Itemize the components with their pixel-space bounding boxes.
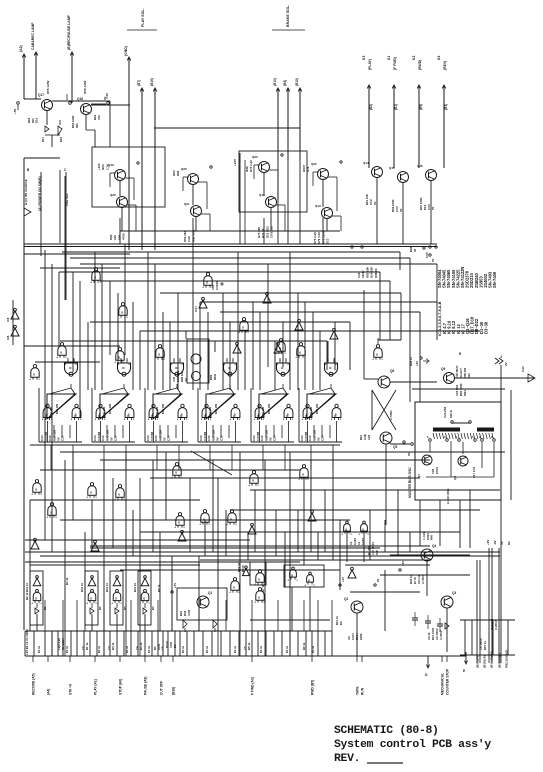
svg-text:IC: IC [286, 414, 289, 418]
svg-text:R3 1k: R3 1k [111, 642, 115, 650]
svg-text:RWD (B5): RWD (B5) [311, 680, 315, 695]
svg-text:Q15: Q15 [389, 166, 395, 170]
svg-text:R4 1k: R4 1k [65, 577, 69, 585]
svg-text:+5V: +5V [415, 361, 419, 366]
svg-text:R86 180: R86 180 [55, 403, 59, 414]
svg-text:B: B [118, 494, 120, 497]
svg-text:R73 2.2K: R73 2.2K [249, 159, 253, 172]
svg-text:Q13: Q13 [315, 204, 321, 208]
svg-text:C20 5DAY: C20 5DAY [455, 365, 459, 378]
svg-text:(B3): (B3) [444, 104, 448, 110]
svg-text:C20: C20 [167, 435, 171, 441]
svg-text:B: B [299, 352, 301, 355]
svg-text:C17 0.01: C17 0.01 [472, 466, 476, 478]
svg-text:B: B [308, 580, 310, 583]
svg-text:0V: 0V [373, 201, 377, 205]
svg-text:R58 1/2W: R58 1/2W [83, 80, 87, 94]
svg-text:Q14: Q14 [363, 161, 369, 165]
svg-text:R31 1k: R31 1k [80, 583, 84, 592]
svg-text:(B9): (B9) [419, 104, 423, 110]
svg-text:IC: IC [69, 366, 72, 370]
svg-text:100/4: 100/4 [426, 533, 430, 540]
svg-text:(B20)(+9): (B20)(+9) [476, 655, 480, 668]
svg-text:Q4: Q4 [432, 544, 436, 548]
svg-text:(REV): (REV) [443, 61, 447, 70]
svg-text:0.2V: 0.2V [521, 366, 525, 372]
svg-text:SN-7400: SN-7400 [492, 271, 497, 288]
svg-text:K3: K3 [362, 56, 366, 60]
svg-text:220K: 220K [359, 633, 363, 640]
svg-text:R9 1k: R9 1k [302, 642, 306, 650]
svg-text:B.(A) ITR CHARGE: B.(A) ITR CHARGE [24, 179, 28, 205]
svg-text:IC8: IC8 [6, 335, 10, 340]
svg-text:K1: K1 [387, 56, 391, 60]
svg-text:0V: 0V [399, 208, 403, 212]
svg-text:R1 1k: R1 1k [205, 645, 209, 653]
svg-text:REV.: REV. [334, 753, 360, 765]
svg-text:C6: C6 [161, 646, 165, 650]
svg-text:PAUSE (A8): PAUSE (A8) [144, 677, 148, 695]
svg-text:C20: C20 [61, 435, 65, 441]
svg-text:CAB&REC LAMP: CAB&REC LAMP [31, 22, 35, 50]
svg-text:MECHANICAL: MECHANICAL [441, 673, 445, 695]
svg-text:2-C19 100/4: 2-C19 100/4 [446, 488, 450, 504]
svg-text:B: B [143, 598, 145, 601]
svg-text:R1 1k: R1 1k [259, 645, 263, 653]
svg-text:IC: IC [257, 414, 260, 418]
svg-text:706: 706 [97, 115, 101, 120]
svg-text:R62: R62 [176, 170, 180, 176]
svg-text:B: B [158, 354, 160, 357]
svg-text:B: B [362, 529, 364, 532]
svg-text:C20: C20 [321, 435, 325, 441]
svg-text:(B10): (B10) [273, 78, 277, 86]
svg-text:R1 1k: R1 1k [181, 645, 185, 653]
svg-text:B: B [178, 522, 180, 525]
svg-text:B: B [291, 575, 293, 578]
svg-text:R86 180: R86 180 [214, 403, 218, 414]
svg-text:B: B [258, 579, 260, 582]
svg-text:100/4: 100/4 [435, 467, 439, 474]
svg-text:(GND): (GND) [124, 46, 128, 56]
svg-text:+5V: +5V [13, 109, 17, 114]
svg-text:4700: 4700 [187, 609, 191, 616]
svg-text:B: B [60, 352, 62, 355]
svg-text:IN34: IN34 [463, 390, 467, 396]
svg-text:PLAY (A1): PLAY (A1) [94, 679, 98, 695]
svg-text:R86 1K: R86 1K [374, 267, 378, 278]
svg-text:2V: 2V [504, 362, 508, 366]
svg-text:0V: 0V [431, 258, 435, 262]
svg-text:D4 OUT: D4 OUT [459, 368, 463, 378]
svg-text:(B2): (B2) [369, 104, 373, 110]
svg-text:R86 180: R86 180 [315, 403, 319, 414]
svg-text:0V: 0V [407, 452, 411, 456]
svg-text:D8 I8: D8 I8 [241, 565, 245, 572]
svg-text:F FWD (A3): F FWD (A3) [251, 677, 255, 695]
svg-text:R55 1/2W: R55 1/2W [46, 80, 50, 94]
svg-text:(F FWD): (F FWD) [393, 57, 397, 70]
svg-text:RECORD (A5): RECORD (A5) [32, 673, 36, 695]
svg-text:R1 1k: R1 1k [311, 645, 315, 653]
svg-text:D13: D13 [326, 238, 330, 244]
svg-text:0V0: 0V0 [375, 550, 379, 555]
svg-text:Q16: Q16 [417, 164, 423, 168]
svg-text:R31 1k: R31 1k [105, 583, 109, 592]
svg-text:R49: R49 [430, 535, 434, 540]
svg-text:+9V: +9V [486, 540, 490, 545]
svg-text:IC: IC [151, 414, 154, 418]
svg-text:K2: K2 [412, 56, 416, 60]
svg-text:620 B: 620 B [449, 410, 453, 418]
svg-text:Q18: Q18 [77, 97, 83, 101]
svg-text:RUN: RUN [361, 687, 365, 695]
svg-text:(PLAY): (PLAY) [368, 59, 372, 70]
svg-text:R31 1k: R31 1k [133, 583, 137, 592]
svg-text:D3~38: D3~38 [483, 321, 488, 334]
svg-text:IC8: IC8 [6, 317, 10, 322]
svg-text:IC: IC [175, 366, 178, 370]
svg-text:(A2): (A2) [19, 45, 23, 52]
svg-text:Q17: Q17 [38, 93, 44, 97]
svg-text:R1 1k: R1 1k [147, 645, 151, 653]
svg-text:Q22: Q22 [311, 162, 317, 166]
svg-text:TAPE: TAPE [356, 686, 360, 695]
svg-text:B: B [90, 598, 92, 601]
svg-text:(A): (A) [184, 378, 188, 382]
svg-text:Q5: Q5 [393, 445, 397, 449]
svg-text:R87 1k: R87 1k [483, 641, 487, 650]
svg-text:Q1: Q1 [208, 591, 212, 595]
svg-text:IC: IC [74, 414, 77, 418]
svg-text:R2 1k: R2 1k [25, 592, 29, 600]
svg-text:D8: D8 [339, 621, 343, 625]
svg-text:R1 1k: R1 1k [85, 642, 89, 650]
svg-text:-9V: -9V [493, 540, 497, 545]
svg-text:Q21: Q21 [184, 202, 190, 206]
svg-text:0.1/50V: 0.1/50V [494, 620, 498, 630]
svg-text:B: B [230, 519, 232, 522]
svg-text:B: B [118, 357, 120, 360]
svg-text:D3: D3 [151, 606, 155, 610]
svg-text:R1 1k: R1 1k [65, 645, 69, 653]
svg-text:B: B [115, 598, 117, 601]
svg-text:R86 180: R86 180 [161, 403, 165, 414]
svg-text:(A4): (A4) [47, 689, 51, 695]
svg-text:33: 33 [413, 248, 417, 252]
svg-text:R4 1k: R4 1k [139, 642, 143, 650]
svg-text:0.0033: 0.0033 [215, 281, 219, 290]
svg-text:(B15): (B15) [295, 78, 299, 86]
svg-text:B: B [302, 474, 304, 477]
svg-text:B: B [376, 354, 378, 357]
svg-text:4.7/50V: 4.7/50V [439, 630, 443, 640]
svg-text:IC: IC [204, 414, 207, 418]
svg-text:B: B [233, 587, 235, 590]
svg-text:Q6: Q6 [390, 369, 394, 373]
svg-text:(B19)(-9): (B19)(-9) [483, 655, 487, 668]
svg-text:SCHEMATIC (80-8): SCHEMATIC (80-8) [334, 725, 439, 737]
svg-text:BRAKE SOL.: BRAKE SOL. [286, 5, 290, 27]
svg-text:IC: IC [329, 366, 332, 370]
svg-text:+9V R1 1k C1 1/25V: +9V R1 1k C1 1/25V [25, 629, 29, 655]
svg-text:D18: D18 [59, 137, 63, 142]
svg-text:R1 1k: R1 1k [285, 645, 289, 653]
svg-text:PLAY SOL.: PLAY SOL. [141, 8, 145, 27]
svg-text:4700: 4700 [122, 233, 126, 240]
svg-text:Q2: Q2 [344, 597, 348, 601]
svg-text:2.2K: 2.2K [105, 163, 109, 170]
svg-text:CUT OFF: CUT OFF [160, 681, 164, 695]
svg-text:2.7/35V: 2.7/35V [389, 410, 393, 420]
svg-text:R1 1k: R1 1k [97, 645, 101, 653]
svg-text:B: B [35, 489, 37, 492]
svg-text:Q3: Q3 [452, 591, 456, 595]
svg-text:R1 1k: R1 1k [37, 645, 41, 653]
svg-text:IC: IC [233, 414, 236, 418]
svg-text:B: B [242, 327, 244, 330]
svg-text:B: B [90, 492, 92, 495]
svg-text:Q9: Q9 [441, 367, 445, 371]
svg-text:+5V: +5V [341, 577, 345, 582]
svg-text:C20: C20 [220, 435, 224, 441]
svg-text:(B14,B)(0V): (B14,B)(0V) [490, 651, 494, 668]
svg-text:C20: C20 [114, 435, 118, 441]
svg-text:B: B [35, 598, 37, 601]
svg-text:IC: IC [334, 414, 337, 418]
svg-text:R80 390: R80 390 [463, 367, 467, 378]
svg-text:IC: IC [305, 414, 308, 418]
svg-text:0V: 0V [376, 578, 380, 582]
svg-text:COUNTER STOP: COUNTER STOP [446, 668, 450, 695]
svg-text:PRE SEL: PRE SEL [65, 193, 69, 206]
svg-text:R76: R76 [306, 166, 310, 172]
svg-text:(B7): (B7) [137, 80, 141, 86]
svg-text:R86 180: R86 180 [267, 403, 271, 414]
svg-text:(RWD): (RWD) [418, 60, 422, 70]
svg-text:D17: D17 [41, 137, 45, 142]
svg-text:System control PCB ass'y: System control PCB ass'y [334, 739, 491, 751]
svg-text:C9 82/16: C9 82/16 [270, 226, 274, 238]
svg-text:B: B [345, 529, 347, 532]
svg-text:PB2,(X)GND: PB2,(X)GND [505, 649, 509, 668]
svg-text:560: 560 [75, 123, 79, 128]
svg-text:J: J [500, 355, 502, 359]
svg-text:(B1): (B1) [394, 104, 398, 110]
svg-text:MASTER BIAS OSC: MASTER BIAS OSC [408, 467, 412, 498]
svg-text:+24V: +24V [233, 159, 237, 166]
svg-text:STOP (A6): STOP (A6) [119, 679, 123, 695]
svg-text:0V: 0V [500, 541, 504, 545]
svg-text:8V: 8V [507, 541, 511, 545]
svg-text:IC: IC [127, 414, 130, 418]
svg-text:(B18): (B18) [172, 687, 176, 695]
svg-text:STA +9: STA +9 [69, 684, 73, 695]
svg-text:B: B [121, 312, 123, 315]
svg-text:IC17: IC17 [194, 306, 198, 312]
svg-text:R8 1k: R8 1k [247, 642, 251, 650]
svg-text:Q20: Q20 [181, 167, 187, 171]
svg-text:(B16): (B16) [150, 78, 154, 86]
svg-text:0V: 0V [103, 96, 107, 100]
svg-text:B: B [258, 597, 260, 600]
svg-text:D16: D16 [35, 117, 39, 123]
svg-text:IC: IC [98, 414, 101, 418]
svg-text:C26: C26 [367, 434, 371, 440]
svg-text:C24 P63: C24 P63 [443, 406, 447, 418]
svg-text:D3: D3 [98, 606, 102, 610]
svg-text:B: B [175, 472, 177, 475]
svg-text:Q8: Q8 [453, 476, 457, 480]
svg-text:D16: D16 [467, 373, 471, 378]
svg-text:6800: 6800 [213, 373, 217, 380]
svg-text:K4: K4 [437, 56, 441, 60]
svg-text:4.7/50V: 4.7/50V [421, 574, 425, 584]
svg-text:Q30: Q30 [110, 193, 116, 197]
svg-text:R31 1k: R31 1k [25, 583, 29, 592]
svg-text:(B)REC/PAUSE LAMP: (B)REC/PAUSE LAMP [67, 14, 71, 50]
svg-text:Q7: Q7 [417, 474, 421, 478]
svg-text:C20: C20 [273, 435, 277, 441]
svg-text:B: B [206, 282, 208, 285]
svg-text:R86 180: R86 180 [108, 403, 112, 414]
svg-text:IC: IC [122, 366, 125, 370]
svg-text:+5V: +5V [173, 583, 177, 588]
svg-text:C-C19: C-C19 [422, 532, 426, 540]
svg-text:0.5V: 0.5V [65, 94, 69, 100]
svg-text:0V: 0V [431, 206, 435, 210]
svg-text:B: B [33, 374, 35, 377]
svg-text:IC: IC [180, 414, 183, 418]
svg-text:B: B [252, 480, 254, 483]
svg-text:Q23: Q23 [252, 155, 258, 159]
svg-text:(B4): (B4) [283, 80, 287, 86]
svg-text:0.5V: 0.5V [425, 252, 429, 258]
svg-text:R1 1k: R1 1k [233, 645, 237, 653]
